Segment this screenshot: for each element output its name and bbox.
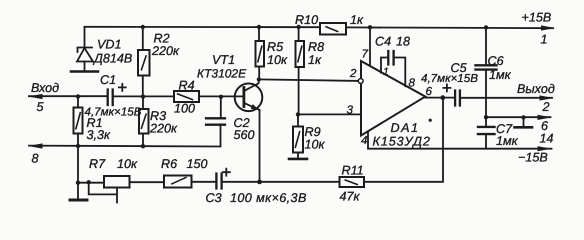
svg-text:3,3к: 3,3к [87,128,112,142]
svg-text:100: 100 [174,102,195,116]
svg-text:220к: 220к [151,44,180,58]
svg-text:+15В: +15В [522,11,552,25]
svg-text:C3: C3 [206,191,222,205]
svg-text:10к: 10к [305,137,326,151]
svg-text:Вход: Вход [31,81,59,95]
svg-text:R10: R10 [295,13,318,27]
svg-text:C1: C1 [100,73,116,87]
svg-text:560: 560 [234,128,255,142]
svg-text:R8: R8 [308,40,324,54]
svg-text:1к: 1к [308,53,322,67]
svg-text:1мк: 1мк [489,68,512,82]
svg-text:220к: 220к [149,121,178,135]
svg-text:Выход: Выход [517,82,555,96]
svg-text:−15В: −15В [518,150,548,164]
svg-text:18: 18 [396,35,410,49]
svg-text:14: 14 [540,131,554,145]
svg-text:8: 8 [409,76,416,89]
svg-text:2: 2 [349,67,357,80]
svg-text:Д814В: Д814В [92,51,132,65]
svg-text:R11: R11 [342,164,364,178]
svg-text:VD1: VD1 [97,37,122,51]
svg-text:10к: 10к [117,157,138,171]
svg-text:C6: C6 [488,54,504,68]
svg-text:5: 5 [37,100,45,114]
svg-text:6: 6 [426,85,433,98]
svg-text:1к: 1к [350,13,364,27]
svg-text:R7: R7 [89,157,106,171]
svg-text:8: 8 [32,151,39,165]
svg-text:7: 7 [362,47,369,60]
svg-text:3: 3 [347,104,354,117]
svg-text:1мк: 1мк [496,134,519,148]
svg-text:КТ3102Е: КТ3102Е [197,67,247,81]
svg-text:C4: C4 [375,35,391,49]
svg-text:DA1: DA1 [391,121,420,135]
svg-text:47к: 47к [340,189,361,203]
svg-text:4,7мк×15В: 4,7мк×15В [421,72,478,85]
svg-text:VT1: VT1 [212,53,235,67]
svg-text:4: 4 [361,134,368,147]
svg-text:R5: R5 [267,40,284,54]
svg-text:К153УД2: К153УД2 [373,135,431,149]
svg-text:R4: R4 [179,79,195,93]
svg-text:10к: 10к [267,53,288,67]
svg-text:100 мк×6,3В: 100 мк×6,3В [230,191,307,205]
svg-text:1: 1 [541,32,548,46]
svg-text:2: 2 [542,100,550,114]
svg-text:1: 1 [383,66,389,78]
svg-text:R6: R6 [161,157,177,171]
svg-text:150: 150 [187,157,208,171]
